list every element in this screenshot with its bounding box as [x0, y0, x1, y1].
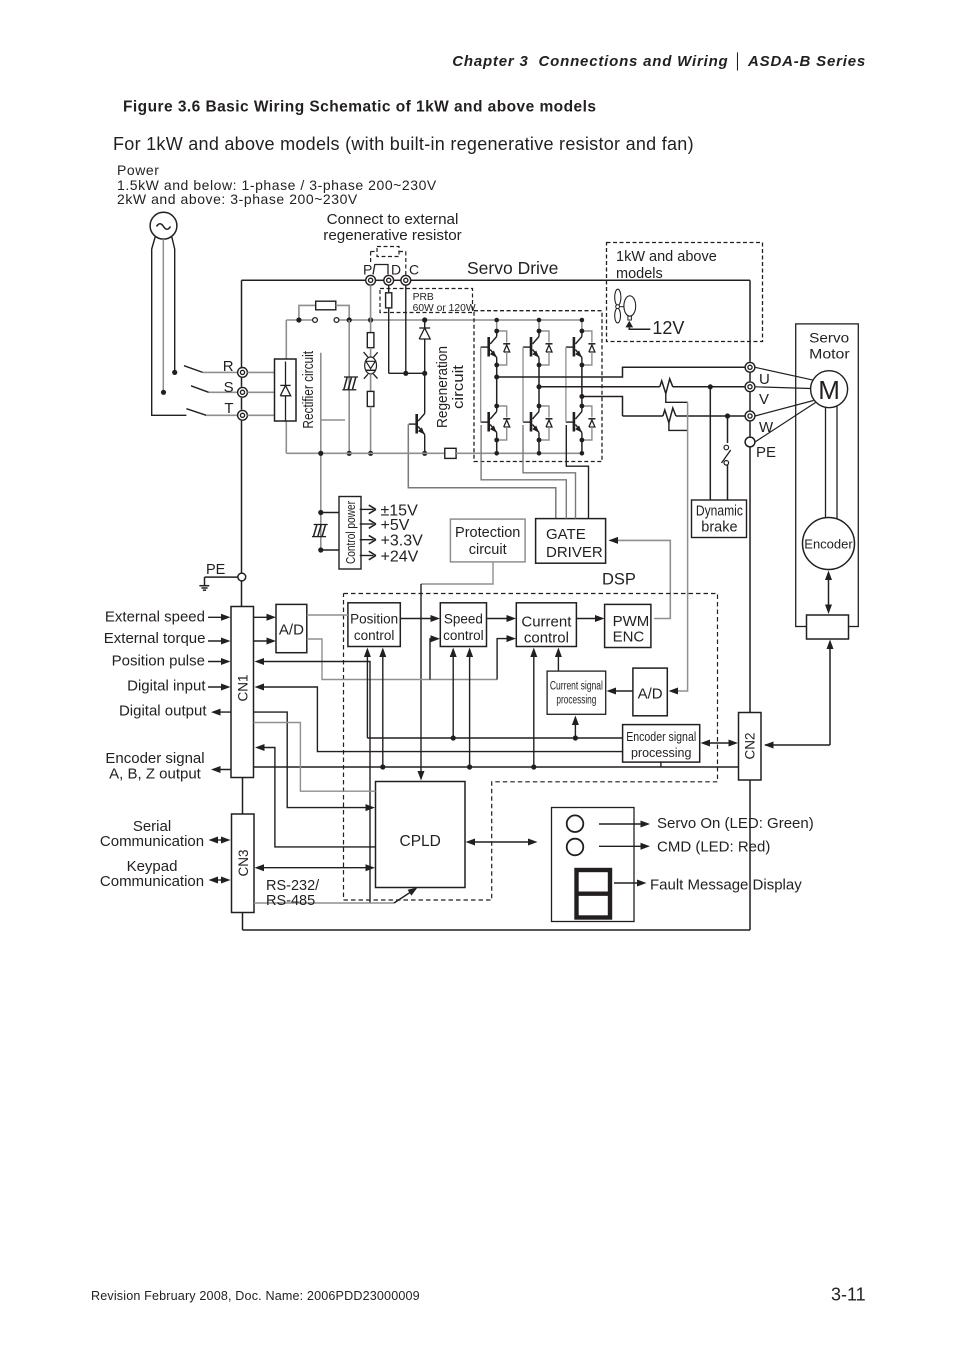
svg-text:Power: Power: [117, 162, 159, 178]
svg-text:M: M: [818, 375, 840, 405]
svg-text:Dynamic: Dynamic: [696, 504, 743, 520]
svg-text:W: W: [759, 419, 774, 436]
svg-text:A/D: A/D: [638, 686, 663, 703]
svg-text:C: C: [409, 262, 419, 278]
svg-text:PWM: PWM: [613, 613, 650, 630]
svg-text:A, B, Z output: A, B, Z output: [109, 766, 202, 783]
svg-text:CMD (LED: Red): CMD (LED: Red): [657, 839, 770, 856]
svg-text:control: control: [443, 628, 484, 643]
svg-text:S: S: [224, 379, 234, 396]
svg-text:Communication: Communication: [100, 873, 204, 890]
svg-text:+24V: +24V: [381, 549, 419, 566]
svg-text:control: control: [524, 629, 569, 646]
svg-text:Encoder signal: Encoder signal: [626, 730, 696, 744]
svg-text:2kW and above: 3-phase 200~230: 2kW and above: 3-phase 200~230V: [117, 191, 358, 207]
svg-text:Current signal: Current signal: [550, 681, 603, 693]
svg-text:Protection: Protection: [455, 525, 520, 541]
svg-text:Position: Position: [350, 612, 398, 627]
svg-text:Digital input: Digital input: [127, 678, 206, 695]
svg-text:RS-485: RS-485: [266, 893, 315, 909]
svg-text:Encoder signal: Encoder signal: [105, 750, 204, 767]
svg-text:models: models: [616, 266, 663, 282]
svg-text:circuit: circuit: [451, 365, 467, 409]
svg-text:Control power: Control power: [344, 501, 358, 564]
svg-text:processing: processing: [556, 695, 596, 707]
svg-text:Position pulse: Position pulse: [112, 653, 205, 670]
svg-text:Rectifier circuit: Rectifier circuit: [301, 351, 317, 429]
svg-text:Connect to external: Connect to external: [327, 211, 459, 228]
svg-text:RS-232/: RS-232/: [266, 878, 320, 894]
svg-text:CN3: CN3: [236, 849, 251, 876]
svg-text:T: T: [224, 400, 233, 417]
svg-text:PE: PE: [756, 444, 776, 461]
svg-text:Revision February 2008, Doc. N: Revision February 2008, Doc. Name: 2006P…: [91, 1289, 420, 1303]
svg-text:PE: PE: [206, 562, 226, 578]
svg-text:ENC: ENC: [613, 629, 645, 646]
svg-text:U: U: [759, 371, 770, 388]
svg-text:CPLD: CPLD: [400, 833, 441, 850]
svg-text:regenerative resistor: regenerative resistor: [323, 227, 461, 244]
svg-text:Digital output: Digital output: [119, 703, 207, 720]
svg-text:control: control: [354, 628, 395, 643]
svg-text:Servo: Servo: [809, 330, 849, 346]
svg-text:Regeneration: Regeneration: [435, 346, 451, 428]
svg-text:DSP: DSP: [602, 571, 636, 589]
svg-text:Servo On (LED: Green): Servo On (LED: Green): [657, 815, 814, 832]
svg-text:CN1: CN1: [236, 674, 251, 701]
svg-text:circuit: circuit: [469, 542, 507, 558]
svg-text:Servo Drive: Servo Drive: [467, 258, 558, 278]
svg-text:+5V: +5V: [381, 517, 410, 534]
svg-text:External torque: External torque: [104, 630, 206, 647]
svg-text:Current: Current: [521, 613, 572, 630]
svg-text:V: V: [759, 391, 769, 408]
svg-text:brake: brake: [701, 520, 737, 536]
svg-text:For 1kW and above models (with: For 1kW and above models (with built-in …: [113, 134, 694, 154]
svg-text:3-11: 3-11: [831, 1285, 866, 1305]
svg-text:processing: processing: [631, 746, 691, 760]
svg-text:Figure 3.6 Basic Wiring Schema: Figure 3.6 Basic Wiring Schematic of 1kW…: [123, 99, 596, 116]
svg-text:A/D: A/D: [279, 622, 304, 639]
svg-text:Encoder: Encoder: [804, 537, 853, 552]
svg-text:DRIVER: DRIVER: [546, 544, 603, 561]
svg-text:GATE: GATE: [546, 526, 586, 543]
svg-text:Speed: Speed: [444, 612, 483, 627]
svg-text:Chapter 3 Connections and Wir: Chapter 3 Connections and Wiring │ ASDA-…: [452, 52, 866, 71]
svg-text:Communication: Communication: [100, 833, 204, 850]
svg-text:External speed: External speed: [105, 609, 205, 626]
svg-text:1kW and above: 1kW and above: [616, 249, 717, 265]
svg-text:12V: 12V: [652, 318, 684, 338]
svg-text:R: R: [223, 358, 234, 375]
svg-text:PRB: PRB: [413, 292, 434, 303]
svg-text:Motor: Motor: [809, 345, 850, 361]
svg-text:60W or 120W: 60W or 120W: [413, 303, 476, 314]
svg-text:D: D: [391, 262, 401, 278]
svg-text:CN2: CN2: [743, 732, 758, 759]
svg-text:+3.3V: +3.3V: [381, 533, 424, 550]
svg-text:Fault Message Display: Fault Message Display: [650, 877, 802, 894]
